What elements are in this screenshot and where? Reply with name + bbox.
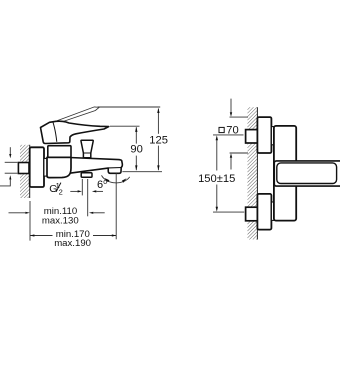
svg-text:150±15: 150±15 — [198, 173, 235, 185]
svg-text:max.190: max.190 — [54, 238, 91, 249]
svg-text:2: 2 — [59, 188, 63, 197]
svg-text:o: o — [103, 179, 107, 186]
svg-text:90: 90 — [130, 144, 142, 156]
svg-text:6: 6 — [97, 179, 103, 191]
svg-text:125: 125 — [149, 135, 168, 147]
svg-text:max.130: max.130 — [42, 215, 79, 226]
